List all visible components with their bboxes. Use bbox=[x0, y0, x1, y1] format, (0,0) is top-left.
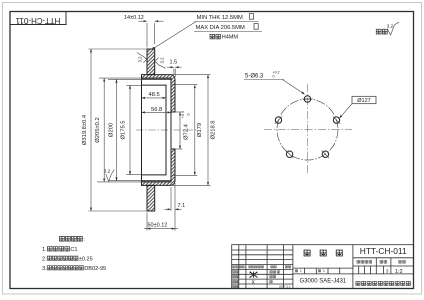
svg-text:3.2: 3.2 bbox=[387, 24, 394, 29]
svg-text:MIN THK 12.5MM: MIN THK 12.5MM bbox=[197, 15, 243, 21]
svg-text:Ø72.4: Ø72.4 bbox=[184, 123, 190, 140]
hole lower-right bbox=[322, 151, 328, 157]
svg-text:±0.25: ±0.25 bbox=[79, 256, 93, 262]
hatch: bottom flange band + right wall lower bbox=[142, 149, 176, 185]
hole upper-right bbox=[333, 117, 339, 123]
revision table horizontals bbox=[232, 249, 293, 251]
svg-text:C1: C1 bbox=[70, 247, 77, 253]
svg-text:1.5: 1.5 bbox=[170, 60, 178, 66]
svg-text:Ø200: Ø200 bbox=[109, 123, 115, 137]
header: mark weight scale bbox=[357, 260, 360, 263]
revision table verticals bbox=[238, 245, 240, 289]
dim dia218.8 line bbox=[155, 75, 211, 186]
top-left part-number box bbox=[10, 12, 66, 25]
hatch: bottom friction-ring column bbox=[147, 185, 155, 211]
horizontal centerline bbox=[264, 129, 352, 131]
svg-text:50±0.12: 50±0.12 bbox=[148, 222, 168, 228]
bore edge bottom bbox=[171, 148, 175, 150]
hatch: top flange band + right wall upper bbox=[142, 75, 176, 112]
wall inner surface vertical bbox=[170, 79, 172, 180]
svg-text:56.8: 56.8 bbox=[151, 107, 162, 113]
svg-text:14±0.12: 14±0.12 bbox=[124, 15, 144, 21]
bore edge top bbox=[171, 111, 175, 113]
svg-text:MAX DIA 206.5MM: MAX DIA 206.5MM bbox=[196, 25, 245, 31]
roughness 3.2 bottom flange bbox=[106, 170, 115, 182]
revision header tiny text bbox=[233, 266, 235, 268]
bolt circle dia127 bbox=[277, 99, 338, 160]
svg-text:2007.2.1: 2007.2.1 bbox=[279, 285, 291, 289]
svg-text:Ø127: Ø127 bbox=[357, 98, 370, 104]
svg-text:0: 0 bbox=[273, 75, 275, 79]
tiny marks middle row bbox=[295, 270, 298, 272]
hat outer dia 200 line bottom bbox=[142, 180, 172, 182]
svg-text:7.1: 7.1 bbox=[178, 203, 186, 209]
right part rows bbox=[353, 257, 414, 259]
roughness 3.2 left of ring bbox=[137, 53, 147, 63]
svg-text:DB02-95: DB02-95 bbox=[84, 266, 106, 272]
cavity step vertical bbox=[165, 85, 167, 175]
dim dia72.4 line bbox=[175, 112, 183, 149]
hat outer dia 200 line top bbox=[142, 78, 172, 80]
svg-text:3.2: 3.2 bbox=[160, 57, 165, 64]
svg-text:H4MM: H4MM bbox=[222, 35, 239, 41]
svg-text:2.: 2. bbox=[42, 256, 47, 262]
cavity dia 175.5/179 line bottom bbox=[142, 174, 167, 176]
title block outline bbox=[232, 245, 414, 289]
hatch: top friction-ring column bbox=[147, 49, 155, 75]
svg-text:Ø205±0.2: Ø205±0.2 bbox=[95, 117, 101, 142]
cavity dia 175.5/179 line top bbox=[142, 84, 167, 86]
dim dia175.5 line bbox=[126, 85, 141, 174]
svg-text:+0.4: +0.4 bbox=[181, 111, 185, 118]
company name bbox=[356, 281, 360, 285]
hat rim face line bbox=[141, 75, 143, 186]
svg-text:HTT-CH-011: HTT-CH-011 bbox=[15, 16, 60, 25]
svg-text:Ø179: Ø179 bbox=[197, 123, 203, 137]
tiny marks in sign columns bbox=[270, 271, 273, 273]
svg-text:HTT-CH-011: HTT-CH-011 bbox=[360, 246, 407, 256]
svg-text:Ø319.8±0.4: Ø319.8±0.4 bbox=[82, 114, 88, 145]
"rest" characters bbox=[376, 29, 381, 34]
svg-text:1: 1 bbox=[323, 269, 325, 273]
middle part rows bbox=[293, 267, 353, 269]
note cast height bbox=[210, 34, 215, 39]
svg-text:3.2: 3.2 bbox=[137, 56, 142, 63]
hole lower-left bbox=[286, 151, 292, 157]
roughness check symbol bbox=[387, 22, 399, 35]
svg-text:1.: 1. bbox=[42, 247, 47, 253]
dim dia319.8 line bbox=[89, 49, 148, 211]
part name bbox=[304, 250, 310, 256]
svg-text:3.2: 3.2 bbox=[104, 169, 111, 174]
roughness 3.2 right of ring bbox=[155, 58, 166, 69]
dim dia205 line bbox=[97, 78, 142, 182]
svg-text:3.: 3. bbox=[42, 266, 47, 272]
svg-text:Ø218.8: Ø218.8 bbox=[210, 120, 216, 139]
svg-text:5-Ø6.3: 5-Ø6.3 bbox=[245, 74, 264, 80]
row labels design/check/process bbox=[233, 271, 236, 274]
svg-text:0: 0 bbox=[187, 114, 191, 116]
svg-text:1: 1 bbox=[300, 269, 302, 273]
centerline axis bbox=[136, 129, 199, 131]
hole upper-left bbox=[275, 117, 281, 123]
svg-text:G3000 SAE-J431: G3000 SAE-J431 bbox=[300, 278, 347, 284]
leader from MIN THK note to ring bbox=[153, 47, 156, 50]
signature blob bbox=[250, 272, 258, 279]
hole top bbox=[304, 96, 310, 102]
vertical centerline bbox=[307, 84, 309, 174]
svg-text:48.5: 48.5 bbox=[149, 92, 160, 98]
svg-text:Ø175.5: Ø175.5 bbox=[120, 120, 126, 139]
svg-text:3: 3 bbox=[386, 268, 389, 273]
dim dia179 line bbox=[172, 85, 197, 176]
dim dia200 line bbox=[108, 79, 142, 180]
label dia127 boxed bbox=[352, 96, 376, 103]
svg-text:1:2: 1:2 bbox=[395, 269, 403, 275]
